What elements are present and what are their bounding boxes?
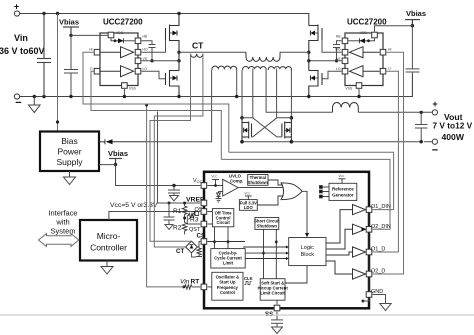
block short circuit shutdown <box>255 218 279 230</box>
svg-text:LI: LI <box>90 67 93 71</box>
svg-text:Vbias: Vbias <box>59 18 79 27</box>
capacitor bootstrap right <box>333 41 342 63</box>
block oscillator <box>212 272 243 300</box>
buffer O2_DIN <box>326 224 366 249</box>
wire vbias2 to IC Vcc <box>116 165 201 186</box>
wire bias box to vbias2 <box>99 164 116 166</box>
svg-text:36 V to60V: 36 V to60V <box>0 46 45 56</box>
wire top rail <box>20 14 309 26</box>
svg-text:LDO: LDO <box>244 205 254 210</box>
wire VS right to midnode <box>309 60 342 62</box>
svg-text:UCC27200: UCC27200 <box>347 18 387 27</box>
svg-text:Power: Power <box>57 147 81 157</box>
svg-text:LI: LI <box>388 67 391 71</box>
capacitor Vbias left decoupling <box>64 35 78 98</box>
wire LI routing <box>91 71 221 159</box>
svg-text:HI: HI <box>388 48 391 52</box>
svg-text:R1: R1 <box>173 208 182 215</box>
capacitor Vcc decoupling <box>168 184 180 201</box>
svg-text:HO: HO <box>335 48 340 52</box>
gate OR main <box>281 183 302 200</box>
wire RT to osc <box>207 286 211 288</box>
svg-text:HB: HB <box>336 35 341 39</box>
svg-text:O2_DIN: O2_DIN <box>371 224 391 230</box>
inductor L1 output <box>333 102 359 112</box>
buffer right low <box>350 66 380 77</box>
block off time control <box>212 209 233 227</box>
resistor CS burden <box>196 247 202 257</box>
wire LO right to gate <box>322 71 342 79</box>
transformer T1 secondary winding C <box>268 67 291 70</box>
svg-text:VCC: VCC <box>193 178 203 184</box>
svg-text:Controller: Controller <box>90 243 127 253</box>
transistor Q3 upper right MOSFET <box>309 25 322 53</box>
wire comp to OR <box>238 187 283 189</box>
transistor Q4 lower right MOSFET <box>309 70 322 97</box>
diode bootstrap right <box>349 38 375 43</box>
wire shortcircuit to softstart <box>262 229 278 278</box>
transistor Q2 lower left MOSFET <box>166 70 180 97</box>
resistor R2 <box>182 220 187 234</box>
svg-text:VSS: VSS <box>345 87 353 91</box>
pin SS <box>274 305 280 311</box>
wire bridge to CS pin <box>197 242 200 248</box>
wire O2_DIN return <box>221 159 390 229</box>
capacitor input <box>37 12 51 98</box>
capacitor Vbias right <box>406 26 420 74</box>
ground micro <box>101 261 113 275</box>
svg-text:VDD: VDD <box>116 31 124 35</box>
wire HO right to gate <box>322 40 342 52</box>
wire VREF <box>158 112 201 204</box>
block LDO <box>239 200 257 211</box>
wire winding C right to sync fet drain <box>290 70 292 118</box>
pin RT <box>201 284 207 290</box>
svg-text:Reference: Reference <box>332 187 354 192</box>
block micro-controller <box>80 220 137 261</box>
wire OR output to logic <box>302 191 307 233</box>
node mid right bridge <box>307 51 310 54</box>
buffer right high <box>350 47 380 58</box>
wire O2_D to right driver HI <box>373 52 404 274</box>
transistor Q1 upper left MOSFET <box>166 14 180 53</box>
svg-text:UCC27200: UCC27200 <box>103 18 143 27</box>
wire CS row inside <box>207 241 245 243</box>
svg-text:−: − <box>15 97 21 109</box>
pin O2_D <box>366 271 372 277</box>
ground input <box>29 95 41 113</box>
wire R3 loop to QST <box>187 216 200 225</box>
pin O1_DIN <box>366 207 372 213</box>
wire arrow O2_DIN <box>362 227 366 231</box>
svg-text:Comp.: Comp. <box>230 178 243 183</box>
buffer O1_DIN <box>326 205 366 244</box>
wire winding C tap to X <box>276 69 278 118</box>
node sync drain left <box>240 116 244 120</box>
ground bias <box>64 171 76 185</box>
buffer O1_D <box>326 247 366 257</box>
svg-text:VS: VS <box>336 57 341 61</box>
svg-text:+: + <box>14 2 19 12</box>
svg-text:Limit Circuit: Limit Circuit <box>260 291 285 296</box>
capacitor VREF <box>164 202 175 230</box>
wire CT secondary lead 2 <box>154 54 203 247</box>
node mid left bridge <box>177 51 180 54</box>
wire winding B tap to X <box>252 69 254 118</box>
capacitor bootstrap left <box>142 41 156 63</box>
wire bias feed <box>56 12 59 132</box>
wire primary run <box>179 51 246 53</box>
block bias power supply <box>40 132 99 172</box>
svg-text:O2_D: O2_D <box>371 269 385 275</box>
svg-text:Circuit: Circuit <box>216 220 230 225</box>
wire secondary AB junction to rail <box>235 70 238 98</box>
wire offtime outputs down <box>213 227 229 249</box>
transformer CT current transformer <box>191 54 203 58</box>
wire center tap to output inductor <box>266 70 332 112</box>
svg-text:O1_D: O1_D <box>371 247 385 253</box>
pin VREF <box>201 200 207 206</box>
wire sync source bottom <box>242 141 421 143</box>
svg-text:Generator: Generator <box>332 193 354 198</box>
svg-text:LO: LO <box>336 67 341 71</box>
svg-text:HO: HO <box>143 48 148 52</box>
svg-text:HI: HI <box>89 48 92 52</box>
svg-text:CLK: CLK <box>244 276 253 281</box>
svg-text:CT: CT <box>192 41 204 51</box>
pin CS <box>201 239 207 245</box>
wire HI to winding A <box>83 52 229 152</box>
wire interface double arrow <box>39 234 79 247</box>
pin QST <box>201 221 207 227</box>
wire bottom rail <box>20 74 413 97</box>
wire winding B left to sync fet drain <box>241 70 243 118</box>
block controller IC outline <box>204 172 369 308</box>
svg-text:Vcc=5 V or3.3V: Vcc=5 V or3.3V <box>110 202 158 209</box>
wire right driver VSS to rail <box>357 89 360 98</box>
pin O2_DIN <box>366 227 372 233</box>
svg-text:VSS: VSS <box>129 87 137 91</box>
transistor Q6 sync right <box>282 118 292 142</box>
supply stub LDO <box>245 196 252 200</box>
svg-text:Vin: Vin <box>14 33 28 43</box>
label driver pins right <box>335 31 391 91</box>
svg-text:−: − <box>432 145 438 157</box>
svg-text:CT: CT <box>176 248 184 255</box>
node Vin- terminal <box>14 94 19 99</box>
block logic block <box>289 238 326 266</box>
svg-text:Block: Block <box>301 252 315 258</box>
svg-text:Vbias: Vbias <box>406 9 426 18</box>
wire Vbias right to driver VDD <box>375 26 413 32</box>
wire Vin sense <box>147 105 184 287</box>
buffer left low <box>101 66 134 77</box>
svg-text:RT: RT <box>191 279 200 286</box>
svg-text:Interface: Interface <box>48 209 77 218</box>
svg-text:VCC: VCC <box>339 174 345 178</box>
svg-text:Shutdown: Shutdown <box>248 180 269 185</box>
wire cross coupling X <box>242 118 291 137</box>
wire winding A left to return <box>147 70 212 142</box>
svg-text:R3: R3 <box>190 217 199 224</box>
pin O1_D <box>366 249 372 255</box>
pin Vcc <box>201 183 207 189</box>
svg-text:+: + <box>432 99 437 109</box>
diode bridge CT sense <box>186 241 198 253</box>
supply stub Vcc comp <box>212 180 219 187</box>
block cycle by cycle <box>211 249 245 268</box>
ground R2 <box>184 234 186 235</box>
svg-text:HB: HB <box>143 35 148 39</box>
scan artifact faint line <box>0 314 474 316</box>
block soft start <box>260 279 285 301</box>
wire bridge bottom return <box>192 253 197 257</box>
refgen left stubs <box>320 186 330 198</box>
wire LDO to OR <box>257 196 283 205</box>
wire QS to off time <box>207 211 212 213</box>
diode bootstrap left <box>111 38 135 43</box>
svg-text:VCC: VCC <box>245 192 251 196</box>
resistor R1 <box>183 202 186 205</box>
svg-text:Control: Control <box>220 290 235 295</box>
svg-text:400W: 400W <box>442 132 465 142</box>
transformer T1 primary <box>246 52 280 61</box>
pin GND <box>366 292 372 298</box>
diode zener ref <box>216 192 222 203</box>
node sync drain right <box>290 116 294 120</box>
wire logic to softstart <box>285 266 307 283</box>
svg-text:VCC: VCC <box>212 175 218 179</box>
svg-text:Shutdown: Shutdown <box>257 224 278 229</box>
ground GND pin <box>362 295 392 311</box>
transformer T1 secondary winding B <box>243 66 266 70</box>
svg-text:R2: R2 <box>173 225 182 232</box>
svg-text:Limit: Limit <box>223 261 234 266</box>
svg-text:7 V to12 V: 7 V to12 V <box>433 121 473 131</box>
transistor Q5 sync left <box>242 118 252 142</box>
wire LO to gate <box>142 71 166 79</box>
wire O1_DIN return <box>229 152 394 209</box>
wire output plus <box>358 111 432 113</box>
capacitor output <box>415 112 428 141</box>
svg-text:Micro-: Micro- <box>97 231 121 241</box>
diode bias output <box>99 139 147 144</box>
svg-text:LO: LO <box>143 67 148 71</box>
svg-text:Bias: Bias <box>61 136 78 146</box>
svg-text:Supply: Supply <box>57 157 84 167</box>
wire O1_D to right driver LI <box>373 71 399 252</box>
svg-text:Logic: Logic <box>301 245 314 251</box>
pin QS <box>201 209 207 215</box>
wire cycle to logic <box>243 246 289 261</box>
wire softstart to SS pin <box>276 300 278 304</box>
wire thermal to OR <box>268 180 283 185</box>
resistor R3 trimmer <box>187 211 196 220</box>
wire left driver VSS to rail <box>123 89 126 98</box>
wire CT secondary lead 1 <box>150 54 192 241</box>
resistor RT <box>184 285 201 289</box>
supply stub refgen <box>339 179 346 184</box>
wire VS to midnode <box>142 60 180 62</box>
svg-text:Vbias: Vbias <box>108 149 128 158</box>
comparator UVLO <box>207 179 238 196</box>
block reference generator <box>329 183 357 200</box>
svg-text:VDD: VDD <box>360 31 368 35</box>
wire output pins vertical <box>368 213 370 291</box>
svg-text:with: with <box>55 218 69 227</box>
block thermal shutdown <box>248 175 268 186</box>
wire micro vcc to QS pin <box>109 212 200 221</box>
buffer left high <box>101 47 134 58</box>
node Vin+ terminal <box>14 11 19 16</box>
buffer O2_D <box>326 261 366 279</box>
wire HO to gate <box>142 40 166 52</box>
label driver pins left <box>89 31 148 91</box>
wire QST to off time <box>207 223 212 225</box>
capacitor SS <box>271 312 283 334</box>
svg-text:O1_DIN: O1_DIN <box>371 204 391 210</box>
wire Vbias to driver VDD <box>71 34 111 36</box>
transformer T1 secondary winding A <box>212 66 237 70</box>
svg-text:VS: VS <box>143 57 148 61</box>
